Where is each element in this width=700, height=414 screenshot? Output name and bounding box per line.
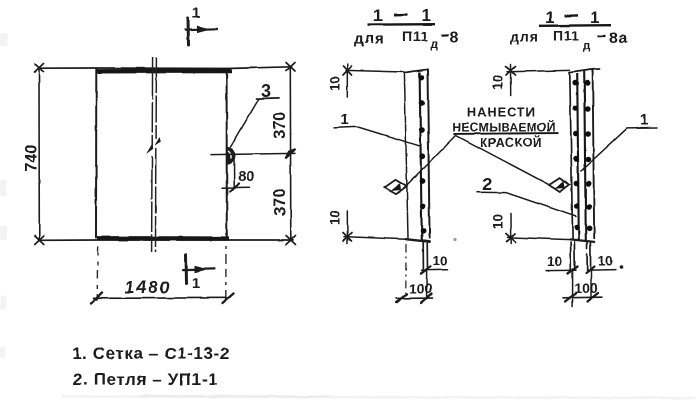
dimension 10 top-left middle: [328, 64, 405, 98]
dimension 80 (loop): [222, 155, 255, 192]
svg-text:1. Сетка – С1-13-2: 1. Сетка – С1-13-2: [72, 344, 230, 363]
svg-text:10: 10: [432, 254, 447, 269]
svg-text:10: 10: [491, 75, 506, 90]
section marker 1 (bottom): [183, 255, 215, 293]
svg-text:1: 1: [545, 8, 554, 27]
loop 3 (петля) on right edge: [227, 148, 235, 164]
dimension 10 bottom-left right section: [491, 214, 571, 244]
leader 2 (loop): [477, 174, 576, 216]
svg-text:370: 370: [271, 112, 289, 140]
mesh bar bottom (plan): [97, 236, 229, 241]
dimension 10 right of loop (middle): [422, 254, 448, 271]
dimension 100 (right section bottom): [564, 280, 603, 302]
dimension 10 bottom-left middle: [328, 210, 407, 244]
svg-text:1: 1: [373, 6, 382, 25]
leader and label 3: [231, 81, 280, 147]
panel outline middle section: [404, 69, 430, 241]
leader note to middle rhombus: [406, 136, 456, 186]
extension lines below plan: [97, 246, 226, 301]
mesh bar top (plan): [96, 69, 232, 74]
mesh C1 right section line A (dots left): [572, 74, 579, 241]
svg-text:НЕСМЫВАЕМОЙ: НЕСМЫВАЕМОЙ: [452, 120, 555, 135]
panel outline right section: [570, 69, 600, 242]
dimension 10 top-left right section: [491, 65, 570, 96]
loop wires below right section (right pair): [586, 242, 595, 298]
svg-text:П11: П11: [553, 28, 579, 44]
svg-text:НАНЕСТИ: НАНЕСТИ: [467, 105, 536, 120]
paint mark rhombus (middle): [385, 180, 407, 194]
parts list line 2: Петля: [73, 370, 218, 389]
svg-text:10: 10: [491, 214, 506, 229]
svg-text:8а: 8а: [609, 30, 628, 47]
loop wires below right section (left pair): [568, 242, 578, 307]
svg-text:10: 10: [328, 210, 343, 225]
svg-text:1: 1: [422, 6, 431, 25]
break line (center match line): [146, 57, 161, 252]
title section 1-1 for П11д-8а: [510, 8, 628, 52]
svg-text:д: д: [583, 40, 591, 52]
svg-text:1: 1: [192, 275, 200, 292]
svg-text:2. Петля – УП1-1: 2. Петля – УП1-1: [73, 370, 218, 389]
svg-text:3: 3: [261, 81, 271, 101]
svg-text:для: для: [510, 29, 539, 45]
svg-text:370: 370: [271, 189, 289, 217]
svg-text:10: 10: [598, 254, 613, 269]
dimension 740 (left): [23, 64, 44, 245]
svg-text:1480: 1480: [125, 277, 172, 297]
section marker 1 (top): [186, 5, 218, 45]
svg-text:740: 740: [23, 144, 41, 172]
leader note to right rhombus: [456, 136, 549, 185]
svg-text:8: 8: [450, 30, 459, 47]
svg-text:100: 100: [574, 280, 598, 296]
note Нанести несмываемой краской: [452, 105, 558, 151]
dimension 10 right wire (right section): [587, 254, 623, 271]
center line middle section: [405, 244, 407, 299]
dimension line right chain (370/370): [211, 63, 296, 245]
leader 1 (right mesh): [581, 112, 657, 171]
parts list line 1: Сетка: [72, 344, 230, 363]
mesh C1 middle section (line with rebar dots): [418, 72, 426, 241]
dimension 1480 (bottom): [92, 277, 234, 303]
title section 1-1 for П11д-8: [354, 6, 459, 51]
svg-text:10: 10: [328, 76, 343, 91]
dimension 100 (middle bottom): [397, 281, 433, 303]
leader 1 (middle mesh): [334, 111, 421, 146]
svg-text:100: 100: [409, 281, 433, 297]
svg-text:1: 1: [192, 5, 200, 22]
svg-text:1: 1: [640, 112, 649, 129]
svg-text:КРАСКОЙ: КРАСКОЙ: [480, 135, 542, 150]
svg-text:2: 2: [483, 174, 493, 194]
dimension 10 left wire (right section): [546, 254, 576, 271]
svg-text:1: 1: [341, 111, 349, 128]
panel outline plan view: [39, 67, 293, 241]
svg-text:80: 80: [238, 168, 255, 185]
faint period after middle 10: [453, 238, 456, 241]
svg-text:д: д: [431, 39, 439, 51]
loop wires below middle section: [421, 242, 431, 299]
svg-text:для: для: [354, 31, 385, 48]
mesh C1 right section line B (dots right): [584, 72, 592, 241]
paint mark rhombus (right): [549, 178, 570, 192]
svg-text:10: 10: [547, 254, 562, 269]
svg-text:П11: П11: [402, 28, 428, 44]
